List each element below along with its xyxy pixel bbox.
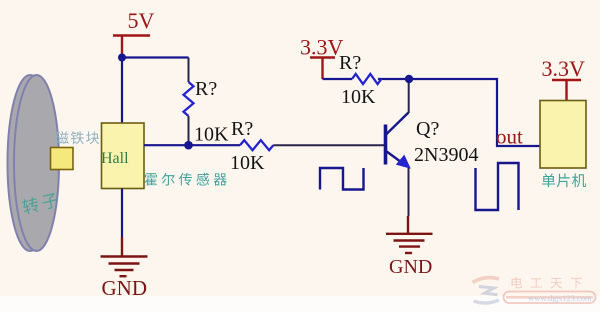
wire emitter to ground xyxy=(408,168,410,216)
svg-text:10K: 10K xyxy=(341,86,376,108)
label 转子 xyxy=(21,191,59,215)
svg-text:10K: 10K xyxy=(194,124,229,146)
resistor R1 zigzag xyxy=(184,82,194,116)
Hall sensor box xyxy=(102,123,145,189)
5V power symbol xyxy=(113,8,155,57)
label 单片机 xyxy=(542,173,586,187)
watermark text 电工天下 xyxy=(512,277,582,288)
svg-text:3.3V: 3.3V xyxy=(300,35,344,60)
svg-text:www.dgjs123.com: www.dgjs123.com xyxy=(528,293,592,303)
svg-text:10K: 10K xyxy=(230,152,265,174)
svg-text:GND: GND xyxy=(102,276,148,300)
transistor Q1 emitter arrow xyxy=(396,155,411,169)
3.3V power symbol right xyxy=(542,56,586,100)
watermark logo xyxy=(473,278,500,303)
svg-text:3.3V: 3.3V xyxy=(542,56,586,81)
watermark pill www.dgjs123.com xyxy=(504,292,596,304)
wire Hall to ground xyxy=(121,189,123,238)
rotor disc xyxy=(8,75,60,251)
square wave 1 xyxy=(320,168,364,190)
svg-text:Hall: Hall xyxy=(101,150,129,167)
svg-text:Q?: Q? xyxy=(416,118,439,140)
3.3V power symbol left xyxy=(300,35,344,80)
label 霍尔传感器 xyxy=(145,173,227,186)
resistor R3 zigzag xyxy=(352,74,381,84)
ground symbol 1 xyxy=(101,237,148,276)
wire collector to node C xyxy=(408,79,410,113)
label 磁铁块 xyxy=(55,131,99,144)
ground symbol 2 xyxy=(386,216,433,253)
resistor R1 vertical pins xyxy=(188,58,190,146)
resistor R2 zigzag xyxy=(240,140,273,150)
svg-text:R?: R? xyxy=(195,78,217,100)
wire node C to MCU xyxy=(409,79,540,146)
svg-text:GND: GND xyxy=(389,256,432,278)
node B junction xyxy=(184,141,193,150)
wire R2 to Q1 base xyxy=(273,144,384,146)
square wave 2 xyxy=(476,163,519,210)
transistor Q1 body xyxy=(386,113,409,165)
wire node A to R1 top xyxy=(122,56,189,58)
svg-text:2N3904: 2N3904 xyxy=(414,144,478,166)
wire node B to R2 xyxy=(189,144,241,146)
wire Hall to node B xyxy=(144,144,189,146)
svg-text:R?: R? xyxy=(339,52,361,74)
magnet block xyxy=(51,148,74,170)
svg-text:out: out xyxy=(496,125,523,149)
svg-text:R?: R? xyxy=(231,118,253,140)
resistor R3 pins xyxy=(323,78,406,80)
svg-text:5V: 5V xyxy=(128,8,155,33)
node A junction xyxy=(118,54,126,62)
MCU box xyxy=(540,101,586,169)
wire node A down to Hall xyxy=(121,58,123,124)
node C junction xyxy=(405,75,413,83)
